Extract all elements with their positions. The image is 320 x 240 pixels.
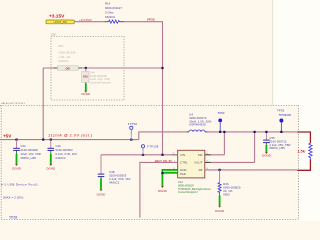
svg-text:0000-000820: 0000-000820 (223, 185, 241, 189)
page boundary dashed right (297, 105, 299, 219)
page boundary dashed left (0, 105, 2, 219)
wire VOUT riser (254, 132, 256, 163)
ground DGND of C38 (97, 177, 107, 197)
svg-text:DGND: DGND (158, 189, 168, 193)
wire output red highlight top (297, 132, 310, 143)
U12 reference text (178, 180, 211, 194)
svg-text:0100-000408: 0100-000408 (21, 148, 39, 152)
node junction VPOS/VIN (161, 154, 163, 156)
test point FTP198 (141, 145, 158, 155)
svg-text:CTRL: CTRL (180, 161, 188, 165)
page boundary dashed bottom (1, 218, 298, 220)
svg-text:0100-000408: 0100-000408 (90, 74, 108, 78)
ground DGND of C40 (46, 150, 56, 170)
svg-text:0402C2: 0402C2 (59, 59, 70, 63)
svg-text:FTP66: FTP66 (128, 122, 138, 126)
sheet edge line top-right (272, 0, 274, 105)
node junction SW branch (223, 131, 225, 133)
node junction R46 (219, 169, 221, 171)
svg-text:FB: FB (199, 168, 203, 172)
ground DGND of C44 (81, 82, 91, 96)
wire VPOS vertical (162, 22, 164, 155)
svg-text:CurrentFootprint: CurrentFootprint (90, 81, 112, 85)
capacitor C42 (13, 140, 20, 151)
svg-text:R51: R51 (59, 44, 65, 48)
svg-text:TP53: TP53 (217, 111, 225, 115)
svg-text:0402C2: 0402C2 (109, 180, 120, 184)
node junction FTP66 (130, 139, 132, 141)
test point TP53 (217, 111, 225, 132)
svg-text:0100-000712: 0100-000712 (269, 139, 287, 143)
svg-text:TP33: TP33 (277, 108, 285, 112)
svg-text:C55: C55 (269, 136, 275, 140)
resistor 1.5k zigzag (309, 143, 312, 159)
svg-text:10uF, 10V, X5R: 10uF, 10V, X5R (21, 152, 41, 156)
svg-text:+3V15_SW: +3V15_SW (53, 20, 67, 24)
wire VIN (101, 154, 178, 156)
svg-text:0402C2: 0402C2 (105, 15, 116, 19)
capacitor C38 (98, 174, 105, 177)
wire SW pin (205, 154, 225, 156)
svg-text:0603: 0603 (223, 192, 230, 196)
svg-text:+3.15V: +3.15V (49, 13, 65, 19)
svg-text:DGND: DGND (12, 166, 22, 170)
svg-text:TP50R05: TP50R05 (278, 113, 291, 117)
svg-text:22uH, 1.0A, 20%: 22uH, 1.0A, 20% (189, 119, 212, 123)
ground DGND of R46 (215, 194, 225, 214)
off-page white right strip (299, 105, 320, 221)
capacitor C44 stem (85, 68, 87, 71)
svg-text:CurrentFootprint: CurrentFootprint (178, 190, 198, 194)
svg-text:0000-001158: 0000-001158 (59, 50, 76, 54)
wire SW branch down (223, 132, 225, 155)
wire R51 horizontal (43, 67, 162, 69)
resistor R46 zigzag (218, 183, 221, 194)
resistor R14 zigzag (109, 20, 120, 23)
svg-text:0290-000273: 0290-000273 (189, 116, 207, 120)
svg-text:VIN: VIN (180, 153, 185, 157)
IC U12 TPS61165 (178, 150, 205, 178)
page boundary dashed horizontal (0, 104, 298, 106)
capacitor C40 (48, 140, 55, 151)
svg-text:0100-000503: 0100-000503 (109, 174, 127, 178)
off-page white top-right (273, 0, 320, 105)
resistor R51 (DNI hatched) (54, 66, 83, 71)
svg-text:C42: C42 (21, 144, 27, 148)
node junction C40 (50, 139, 52, 141)
resistor R14 pin stubs (105, 21, 109, 23)
svg-text:SW: SW (198, 153, 203, 157)
svg-text:C38: C38 (109, 170, 115, 174)
svg-text:DGND: DGND (215, 209, 225, 213)
test point TP33 (277, 108, 291, 131)
svg-text:1.0K, 1%: 1.0K, 1% (59, 55, 71, 59)
svg-text:TP28: TP28 (9, 215, 17, 219)
wire VOUT pin (205, 161, 255, 163)
svg-text:DGND: DGND (46, 166, 56, 170)
node junction VOUT riser (254, 131, 256, 133)
svg-text:PAD: PAD (180, 172, 186, 176)
svg-text:R46: R46 (223, 182, 229, 186)
ground wires GND/PAD (green) (158, 169, 178, 193)
wire +5V rail riser (139, 132, 187, 140)
svg-text:0402C2: 0402C2 (56, 156, 67, 160)
svg-text:DNI: DNI (66, 67, 71, 71)
node junction TP53 (219, 131, 221, 133)
node junction C42 (15, 139, 17, 141)
svg-text:0.1uF, X7R, 16V: 0.1uF, X7R, 16V (109, 177, 130, 181)
svg-text:0805C_H48: 0805C_H48 (21, 156, 37, 160)
capacitor C55 (263, 132, 270, 143)
svg-text:0.1uF, X7R, 16V: 0.1uF, X7R, 16V (56, 152, 77, 156)
svg-text:C40: C40 (56, 144, 62, 148)
node junction FTP198 (142, 154, 144, 156)
svg-text:10uF, 10V, X5R: 10uF, 10V, X5R (90, 77, 110, 81)
svg-text:(MAX = 2.25V):: (MAX = 2.25V): (3, 195, 24, 199)
svg-text:+5V: +5V (3, 134, 12, 139)
svg-text:20, 1%: 20, 1% (223, 189, 233, 193)
svg-text:VPOS: VPOS (147, 18, 155, 22)
node junction R51/C44 (85, 67, 87, 69)
wire FB (205, 169, 297, 171)
U12 pin numbers (173, 153, 209, 170)
svg-text:DGND: DGND (81, 92, 91, 96)
svg-text:DNI: DNI (83, 75, 88, 79)
wire R14 to corner (124, 21, 163, 23)
svg-text:FTP198: FTP198 (147, 145, 158, 149)
wire CTRL (140, 162, 178, 217)
inductor U4 (187, 130, 208, 132)
svg-text:VOUT: VOUT (194, 161, 203, 165)
wire +3V15_SW to R14 (74, 21, 104, 23)
svg-text:C44: C44 (90, 70, 96, 74)
svg-text:0000-001127: 0000-001127 (105, 6, 122, 10)
svg-text:2.2uF, 25V, X5R: 2.2uF, 25V, X5R (269, 143, 290, 147)
wire output red highlight bottom (297, 159, 310, 170)
svg-text:U4: U4 (189, 113, 193, 117)
svg-text:0805C_H55: 0805C_H55 (269, 146, 285, 150)
node junction R51 riser (42, 139, 44, 141)
resistor R46 stem (219, 170, 221, 183)
svg-text:BACKLIGHT OPTION 1: BACKLIGHT OPTION 1 (1, 102, 26, 105)
svg-text:1.5k: 1.5k (297, 148, 306, 153)
node junction C55 (265, 131, 267, 133)
svg-text:DNI: DNI (51, 33, 55, 36)
wire +5V rail (0, 139, 139, 141)
wire SW node horizontal (208, 131, 298, 133)
svg-text:DGND: DGND (262, 154, 272, 158)
test point FTP66 (128, 122, 138, 140)
U12 pin names (180, 153, 203, 176)
svg-text:BKLT_EN_5V: BKLT_EN_5V (155, 159, 172, 163)
U12 pin stubs (172, 155, 211, 170)
svg-text:ASPI40403S: ASPI40403S (189, 123, 206, 127)
svg-text:# 3 USB Device Port():: # 3 USB Device Port(): (1, 182, 39, 186)
svg-text:0 Ohm: 0 Ohm (105, 11, 114, 15)
node junction TP33 (280, 131, 282, 133)
DNI dashed box (51, 37, 124, 101)
wire C38 riser (100, 155, 102, 174)
power port +3V15_SW (46, 20, 74, 24)
svg-text:R14: R14 (105, 2, 111, 6)
svg-text:0100-000503: 0100-000503 (56, 148, 74, 152)
wire R51 riser to +5V rail (42, 68, 44, 140)
svg-text:DGND: DGND (97, 192, 107, 196)
capacitor C44 (DNI hatched) (82, 71, 89, 82)
ground DGND of C42 (12, 150, 22, 170)
node junction VPOS/R51 (161, 67, 163, 69)
svg-text:111mA @ 1.0V (est.): 111mA @ 1.0V (est.) (48, 132, 93, 137)
ground DGND of C55 (262, 143, 272, 158)
